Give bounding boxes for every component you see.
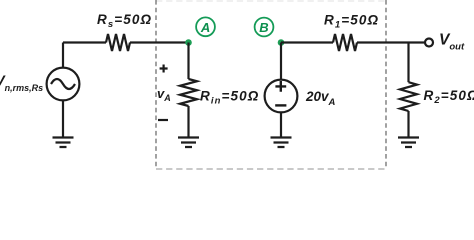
AC source sine wave [51, 79, 75, 89]
svg-text:Vout: Vout [439, 32, 465, 53]
dashed box left edge [155, 0, 157, 169]
wire node B to dependent source [280, 43, 282, 80]
svg-text:Vn,rms,Rs: Vn,rms,Rs [0, 74, 43, 94]
node A label circle [196, 17, 215, 36]
ground G2 [178, 138, 199, 148]
svg-text:R1=50Ω: R1=50Ω [324, 13, 379, 31]
node B label circle [255, 18, 274, 37]
node B dot [278, 39, 285, 46]
svg-text:R2=50Ω: R2=50Ω [424, 88, 474, 106]
dashed box right edge [385, 0, 387, 169]
wire node A to Rin [187, 43, 189, 80]
dashed box bottom edge [156, 168, 386, 170]
AC source Vn circle [47, 68, 80, 101]
resistor R1 zigzag [333, 34, 357, 51]
resistor Rin zigzag [180, 79, 197, 106]
wire dependent source to ground [280, 112, 282, 137]
Vout open terminal [425, 39, 433, 47]
vA minus sign [158, 119, 168, 121]
dependent source minus [275, 104, 286, 106]
svg-text:A: A [200, 20, 210, 35]
ground G4 [398, 138, 419, 148]
wire junction to R2 [407, 43, 409, 83]
vA plus sign [160, 65, 168, 73]
resistor RS zigzag [106, 34, 130, 51]
wire node B to R1 [281, 41, 333, 43]
svg-text:B: B [259, 20, 268, 35]
svg-text:20vA: 20vA [305, 89, 336, 108]
wire source bottom to ground [62, 100, 64, 137]
wire source top to Rs [63, 43, 106, 68]
wire R1 to Vout terminal [357, 41, 425, 43]
node A dot [185, 39, 192, 46]
dashed box top edge [156, 0, 386, 2]
wire R2 to ground [407, 111, 409, 137]
dependent source plus [275, 81, 286, 92]
resistor R2 zigzag [400, 82, 417, 111]
ground G1 [53, 138, 74, 148]
ground G3 [271, 138, 292, 148]
wire Rin to ground [187, 106, 189, 137]
dependent source 20vA circle [265, 80, 298, 113]
svg-text:Rs=50Ω: Rs=50Ω [97, 12, 152, 30]
svg-text:vA: vA [157, 86, 171, 103]
svg-text:Rin=50Ω: Rin=50Ω [200, 89, 259, 107]
wire Rs to node A [130, 41, 189, 43]
